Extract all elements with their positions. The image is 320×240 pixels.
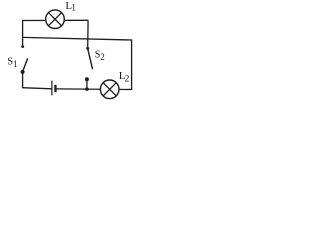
wire: bottom right (right corner to battery, passes under L2) bbox=[56, 88, 132, 91]
battery cell: long positive plate bbox=[51, 81, 53, 96]
wire: bottom left (battery to bottom-left corner) bbox=[22, 88, 52, 89]
wire: S2 bottom contact to bottom wire bbox=[86, 79, 88, 89]
switch S1 bbox=[21, 45, 28, 74]
lamp L1 bbox=[46, 10, 65, 29]
wire: S2 branch vertical (top corner through middle-wire crossing) bbox=[87, 20, 89, 48]
lamp L2 bbox=[100, 80, 119, 99]
svg-text:1: 1 bbox=[13, 59, 18, 69]
background bbox=[0, 0, 141, 101]
svg-text:1: 1 bbox=[71, 4, 76, 14]
svg-text:2: 2 bbox=[125, 74, 130, 84]
wire: middle horizontal (node A junction to right corner) bbox=[23, 37, 132, 40]
junction dot (S2 branch meets bottom wire) bbox=[85, 87, 89, 91]
wire: left vertical upper (corner down to S1 top contact) bbox=[22, 20, 24, 47]
wire: left vertical lower (S1 bottom contact to corner) bbox=[22, 72, 24, 88]
wire: right vertical bbox=[131, 39, 133, 89]
svg-text:2: 2 bbox=[100, 52, 105, 62]
battery cell: short thick negative plate bbox=[54, 85, 56, 92]
switch S2 bbox=[85, 47, 93, 81]
wire: top (node A to top-right corner) bbox=[23, 19, 89, 21]
